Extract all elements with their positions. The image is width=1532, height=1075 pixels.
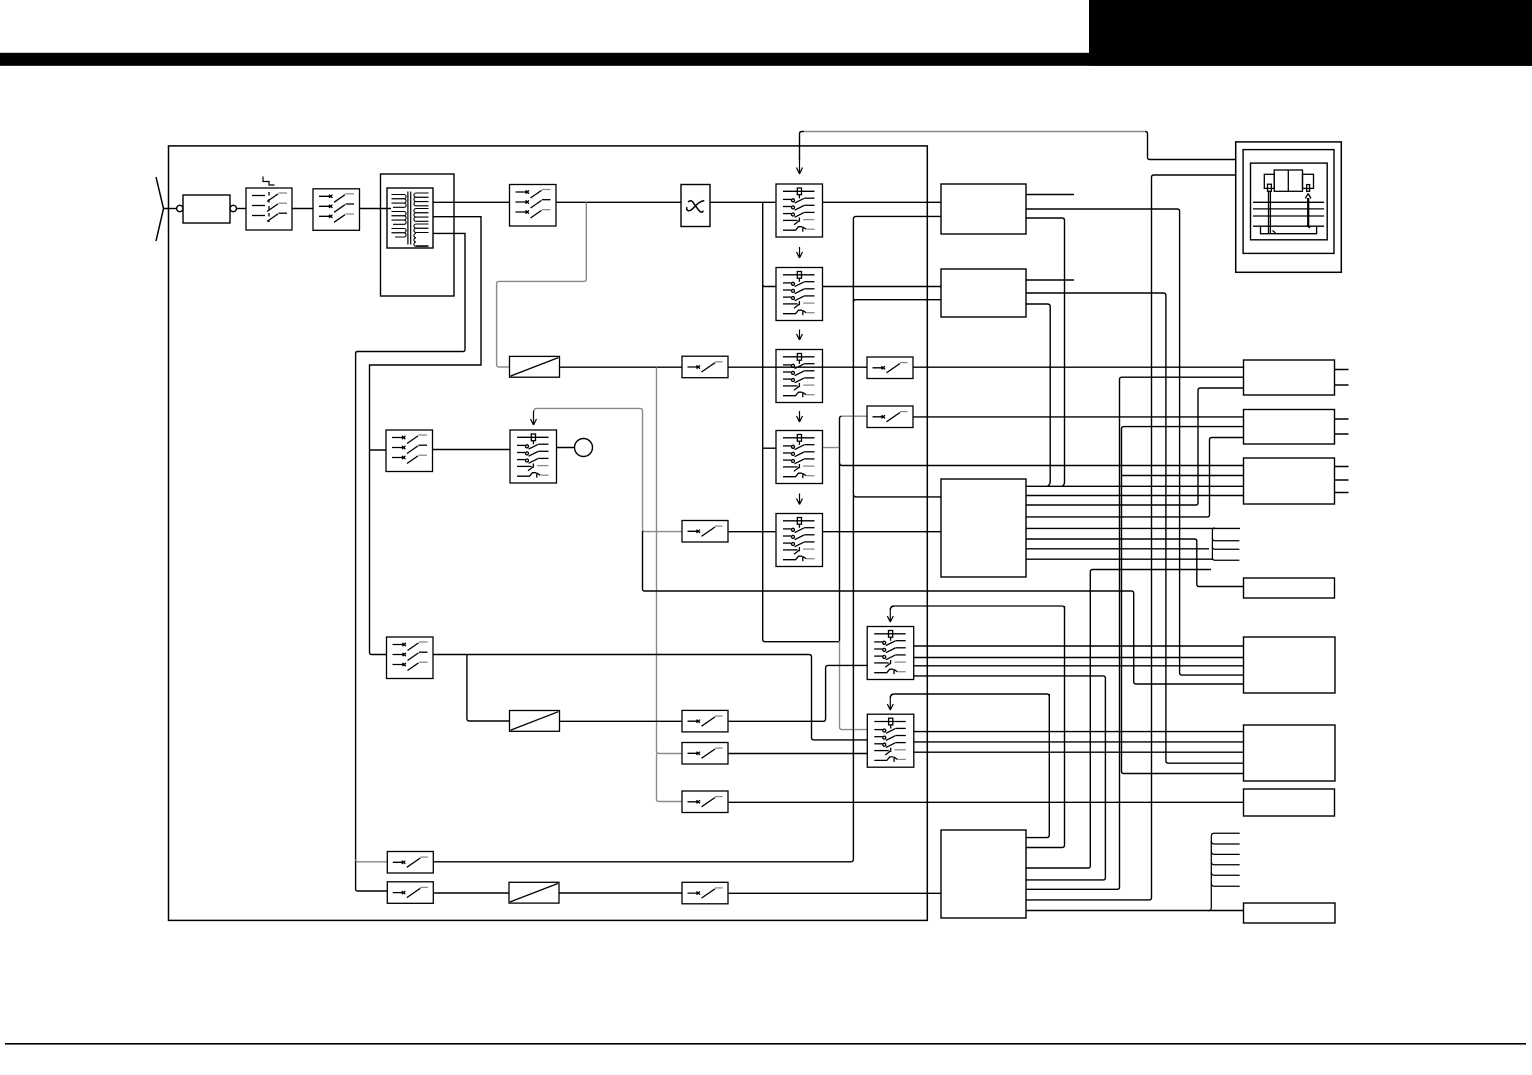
wire <box>728 366 867 368</box>
terminal circle right <box>230 205 236 211</box>
arrow between M4-M5 <box>797 494 803 505</box>
wire <box>556 201 681 203</box>
wire midbox out up to box R1 input 3 <box>1026 388 1244 505</box>
fan stub 5 <box>1211 872 1239 875</box>
fan stub 2 <box>1211 841 1239 844</box>
wire hook to matrix M6 and switch S7 <box>538 408 683 531</box>
antenna <box>156 177 169 241</box>
matrix M5 <box>776 514 823 567</box>
box T2 stub out <box>1026 279 1074 281</box>
switch Sc <box>682 882 728 904</box>
Sb out chain <box>433 892 509 894</box>
wire matrix M4 out to V839 <box>823 446 840 447</box>
motor circle <box>557 447 575 449</box>
M7 outputs to R5 <box>913 646 1243 666</box>
wire V1121 box R2 input 2 / R6 input 5 <box>1122 427 1244 774</box>
wire into big control box <box>728 892 941 894</box>
wire diag2 out <box>560 720 683 722</box>
wire bigbox out riser V1090 to fan level <box>1026 570 1211 869</box>
switch S1 (function) <box>246 188 292 230</box>
fan stub 4 <box>1211 862 1239 865</box>
box R3 <box>1244 458 1335 504</box>
wire T2 out to box R6 input 4 <box>1026 293 1244 763</box>
fan stub 3 <box>1211 851 1239 854</box>
transformer out 2 wire <box>370 217 482 655</box>
fan stub 3 <box>1212 547 1239 550</box>
matrix M2 <box>776 268 823 321</box>
wire V839 to box R3 input 1 <box>840 463 1244 465</box>
matrix M8 <box>867 714 914 767</box>
arrow into matrix M1 <box>797 158 803 174</box>
transformer T1 <box>387 188 433 248</box>
wire <box>433 449 511 451</box>
mechanism drawing <box>1253 170 1324 234</box>
wire Sa out up V853 to box T1 input 2 <box>433 216 941 861</box>
arrow into matrix M6 <box>531 411 537 425</box>
wire midbox out up to box R2 input 3 <box>1026 438 1244 517</box>
R3 stubs <box>1335 467 1349 493</box>
wire midbox out down to box R4 <box>1026 539 1244 587</box>
switch S11 <box>682 743 728 765</box>
wire <box>360 208 392 210</box>
box T1 <box>941 184 1026 234</box>
hook curve M7 <box>890 606 894 610</box>
wire W1 elbow into display <box>1145 132 1236 160</box>
matrix M3 <box>776 350 823 403</box>
wire midbox out to fan stub 4 <box>1026 558 1213 560</box>
attenuator box (alpha) <box>681 185 710 227</box>
wire to right box R1 <box>913 366 1243 368</box>
matrix M6 (with motor) <box>510 430 557 483</box>
long line H591 from hook vertical <box>643 531 1244 684</box>
switch S6 (x) <box>386 430 433 472</box>
fan stub 1 <box>1211 833 1239 836</box>
S10 out wire <box>728 665 867 721</box>
wire <box>823 201 942 203</box>
wire T1 out to box R5 input 4 <box>1026 209 1244 675</box>
wire bigbox out to box R8 <box>1026 910 1244 912</box>
matrix M1 <box>776 184 823 237</box>
wire hook to matrix M7 <box>894 606 1064 609</box>
switch Sa <box>387 852 433 874</box>
M8 outputs to R6 <box>913 732 1243 753</box>
wire to S6 <box>370 449 387 451</box>
gray vertical from diag1 line down to aux switches <box>657 367 683 801</box>
big mechanism control box <box>941 830 1026 918</box>
outer pcb border <box>169 146 928 921</box>
wire bigbox out riser V1119 to box R1 input 2 <box>1026 377 1244 889</box>
box R4 <box>1244 578 1335 598</box>
box R6 <box>1244 725 1336 781</box>
box R8 <box>1244 903 1336 923</box>
wire M5 to control box <box>823 531 942 533</box>
wire bigbox out riser V1105 to matrix M7 <box>913 676 1105 880</box>
box R1 <box>1244 360 1335 395</box>
matrix M4 <box>776 431 823 484</box>
hook curve M6 <box>534 408 538 412</box>
wire midbox out to fan stub 1 <box>1026 527 1240 529</box>
arrow between M3-M4 <box>797 411 803 422</box>
display unit nested boxes <box>1236 142 1342 272</box>
main FM line (transformer out 1) <box>433 201 510 203</box>
wire <box>559 892 682 894</box>
wire to matrix M5 <box>728 531 776 533</box>
box T1 stub out <box>1026 194 1074 196</box>
arrow into matrix M7 <box>887 609 893 622</box>
terminal circle left <box>177 205 183 211</box>
hook curve M8 <box>890 694 894 698</box>
wire V839 lower to matrix M8 <box>840 641 868 730</box>
diag3 box <box>509 882 559 903</box>
wire V839 to switch S8 <box>842 415 867 417</box>
branch down to diag2 <box>467 655 510 722</box>
mid system control box <box>941 479 1026 577</box>
wire <box>710 201 776 203</box>
wire <box>292 208 313 210</box>
switch S7 <box>682 521 728 543</box>
R2 stubs <box>1335 419 1349 434</box>
switch S5 <box>867 357 913 379</box>
wire midbox out to fan vertical <box>1026 548 1209 550</box>
connector fan lower <box>1208 833 1240 910</box>
box R2 <box>1244 410 1335 445</box>
gray Z branch from main line to diag1 <box>497 202 587 367</box>
wire M2 out <box>823 286 942 288</box>
midbox input from V853 tee <box>853 495 941 497</box>
step icon above switch S1 <box>263 177 275 186</box>
fan vertical and last stub <box>1212 528 1239 560</box>
switch Sb <box>387 882 433 904</box>
switch S3 <box>510 185 557 227</box>
fan vertical to R8 wire <box>1208 836 1211 910</box>
wire T1 out down control vertical <box>1026 218 1065 486</box>
header black bar <box>0 53 1532 66</box>
R3 input tee from V1121.5 <box>1122 475 1244 477</box>
arrow between M2-M3 <box>797 330 803 341</box>
switch S2 (x-contacts) <box>313 189 360 231</box>
vertical bus V762 from main line <box>763 202 840 641</box>
control vertical for hook 2 <box>1026 694 1049 838</box>
switch S12 <box>682 791 728 813</box>
wire W1 display to matrix M1 (gray run) <box>804 131 1145 133</box>
wire midbox out to box R3 input 4 <box>1026 495 1244 497</box>
switch S8 <box>867 406 913 428</box>
transformer outer box <box>381 174 455 296</box>
branch to tape switch a <box>356 859 388 862</box>
fan stub 2 <box>1212 538 1239 541</box>
branch to matrix M4 line <box>763 447 776 449</box>
control vertical for hook 1 <box>1026 606 1065 848</box>
wire V853 tee to box T2 input 2 <box>853 300 941 302</box>
branch to matrix M2 <box>763 284 776 286</box>
switch S4 <box>682 356 728 378</box>
box T2 <box>941 269 1026 317</box>
transformer out 3 wire <box>356 233 465 891</box>
S12 out long wire to fan and R7 <box>728 801 1244 803</box>
bottom rule <box>5 1043 1526 1045</box>
S11 out wire <box>728 753 867 755</box>
header black block top-right <box>1089 0 1532 66</box>
wire <box>237 208 247 210</box>
wire bigbox out riser V1151 to display <box>1026 175 1236 900</box>
switch S9 (x 3gang lower left) <box>387 637 434 679</box>
diag2 box <box>510 711 560 732</box>
alpha symbol <box>688 201 703 212</box>
wire T2 out down control vertical <box>1026 304 1050 486</box>
wire midbox out to box R3 input 3 <box>1026 485 1244 487</box>
fan stub 6 <box>1211 883 1239 886</box>
box R7 <box>1244 789 1335 816</box>
antenna input box <box>183 195 230 223</box>
arrow between M1-M2 <box>797 247 803 258</box>
diag1 level box <box>510 356 560 377</box>
box R5 <box>1244 637 1336 693</box>
wire hook to matrix M8 <box>894 694 1049 697</box>
vertical bus V839 <box>840 416 842 641</box>
arrow into matrix M8 <box>887 697 893 710</box>
wire diag1 to right chain <box>560 366 683 368</box>
S9 input from V369 handled above; S9 output <box>433 655 868 740</box>
connector fan upper <box>1212 528 1239 560</box>
wire S8 to R2 <box>913 416 1243 418</box>
switch S10 <box>682 710 728 732</box>
wire antenna to terminal <box>169 208 177 210</box>
R1 stubs <box>1335 370 1349 386</box>
matrix M7 <box>867 627 914 680</box>
